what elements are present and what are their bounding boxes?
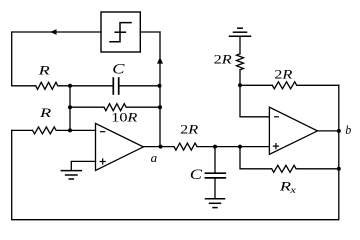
svg-text:10R: 10R	[111, 111, 137, 125]
svg-text:R: R	[39, 107, 52, 121]
svg-text:R: R	[37, 64, 50, 78]
svg-text:2R: 2R	[274, 68, 292, 82]
svg-text:a: a	[151, 150, 158, 165]
svg-text:C: C	[112, 60, 125, 77]
svg-text:2R: 2R	[214, 53, 232, 67]
svg-text:2R: 2R	[180, 123, 198, 137]
svg-text:b: b	[345, 123, 351, 138]
svg-text:C: C	[190, 166, 203, 183]
svg-text:x: x	[289, 185, 296, 195]
